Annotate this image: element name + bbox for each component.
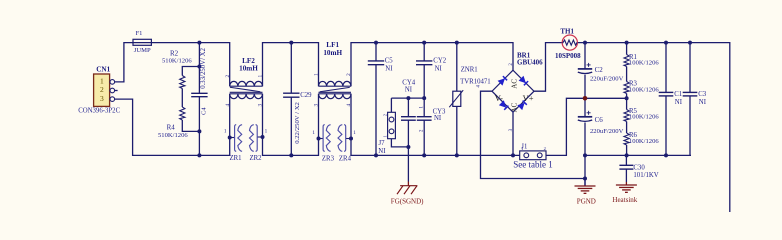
- svg-text:ZR1: ZR1: [230, 155, 242, 162]
- svg-text:JUMP: JUMP: [134, 47, 151, 54]
- svg-text:Heatsink: Heatsink: [612, 196, 637, 204]
- label CY3: [433, 108, 446, 115]
- svg-text:NI: NI: [378, 148, 386, 155]
- capacitor C5: [368, 61, 384, 65]
- capacitor C6: [578, 117, 592, 122]
- label LF1 value: [323, 49, 342, 57]
- label ZNR1 value: [460, 78, 491, 85]
- svg-text:1: 1: [312, 130, 315, 136]
- wire bridge V+ output to TH1: [534, 43, 562, 92]
- pin 3 LF2: [258, 104, 264, 107]
- pin 1 ZR1: [224, 129, 227, 135]
- svg-text:CN1: CN1: [96, 65, 110, 73]
- inductor LF2 common mode choke: [230, 81, 263, 98]
- resistor R6: [624, 133, 629, 145]
- jumper J7: [388, 112, 396, 138]
- pin 4 LF2: [225, 104, 231, 107]
- ground FG(SGND) chassis symbol: [397, 182, 417, 195]
- label CY4: [402, 80, 415, 87]
- label BR1: [517, 51, 531, 59]
- label R4: [167, 124, 176, 132]
- label C6 value: [590, 128, 624, 135]
- wire PGND bottom rail: [585, 154, 691, 156]
- svg-text:101/1KV: 101/1KV: [633, 172, 658, 179]
- label TH1 value: [555, 52, 581, 60]
- pin 2 LF2: [225, 75, 231, 78]
- svg-text:R2: R2: [170, 49, 179, 57]
- svg-text:TVR10471: TVR10471: [460, 78, 491, 85]
- label CY3 NI: [434, 115, 442, 122]
- surge arrester ZR3: [319, 125, 331, 152]
- resistor R2: [180, 76, 185, 89]
- svg-text:2: 2: [383, 114, 388, 116]
- thermistor TH1: [562, 35, 577, 50]
- label C30: [633, 164, 645, 171]
- svg-text:NI: NI: [405, 86, 413, 93]
- svg-text:C1: C1: [674, 91, 682, 98]
- varistor ZNR1: [449, 90, 463, 107]
- label C4 value (rotated): [200, 47, 207, 88]
- wire ZNR1 column: [456, 43, 458, 156]
- label CY4 NI: [405, 86, 413, 93]
- capacitor CY4: [401, 117, 416, 121]
- svg-text:100K/1206: 100K/1206: [629, 60, 659, 67]
- junction dot C2-C6 midpoint (red): [583, 96, 588, 101]
- svg-text:PGND: PGND: [577, 197, 596, 205]
- pin 4 BR1: [477, 85, 482, 88]
- label PGND: [577, 197, 596, 205]
- label CON396-3P2C: [78, 107, 120, 114]
- label C1 NI: [675, 99, 683, 106]
- svg-text:C4: C4: [200, 107, 207, 115]
- svg-text:3: 3: [100, 94, 104, 103]
- wire CN1 pin2 stub: [115, 90, 118, 92]
- pin 1 ZR2: [265, 129, 268, 135]
- wire C30 column: [625, 155, 627, 182]
- label LF2: [242, 57, 255, 65]
- label CN1: [96, 65, 110, 73]
- wire C29 column: [290, 43, 292, 156]
- capacitor C4: [191, 93, 207, 96]
- svg-text:LF1: LF1: [326, 41, 339, 49]
- svg-text:NI: NI: [385, 65, 393, 72]
- label TH1: [560, 27, 574, 35]
- label JUMP: [134, 47, 151, 54]
- wire R1-R3-R5-R6 column: [0, 0, 1, 1]
- label V+: [523, 93, 534, 103]
- label See table 1: [513, 160, 553, 170]
- label C30 value: [633, 172, 658, 179]
- svg-text:See table 1: See table 1: [513, 160, 553, 170]
- label LF1: [326, 41, 339, 49]
- svg-text:C6: C6: [595, 116, 604, 124]
- svg-text:J7: J7: [379, 140, 386, 147]
- label ZNR1: [461, 67, 478, 74]
- wire top rail LF1 to bridge pin 2: [351, 43, 513, 87]
- label C3: [698, 91, 707, 98]
- inductor LF1 common mode choke: [319, 81, 352, 98]
- capacitor C1: [659, 92, 674, 96]
- label R6: [629, 132, 638, 139]
- junction dots top rail: [197, 41, 692, 45]
- capacitor CY3: [417, 117, 432, 121]
- resistor R4: [180, 107, 185, 120]
- wire C5 column: [375, 43, 377, 156]
- label BR1 value: [517, 59, 543, 67]
- junction dots bottom rail: [197, 153, 668, 157]
- svg-text:C30: C30: [633, 164, 645, 171]
- svg-text:NI: NI: [675, 99, 683, 106]
- label J7: [379, 140, 386, 147]
- wire C2 bottom to C6 top: [584, 75, 586, 117]
- svg-text:4: 4: [225, 104, 231, 107]
- surge arrester ZR1: [230, 125, 242, 152]
- label R1: [629, 54, 637, 61]
- svg-text:F1: F1: [136, 30, 143, 37]
- svg-text:C29: C29: [300, 92, 312, 99]
- label R2 value: [162, 58, 192, 65]
- ground PGND symbol: [575, 179, 596, 194]
- label AC bottom (rotated): [511, 102, 519, 112]
- pin 1 J1: [521, 146, 523, 151]
- bridge rectifier BR1: [492, 70, 534, 112]
- wire bottom rail LF1 to J1: [351, 94, 520, 156]
- svg-text:1: 1: [353, 130, 356, 136]
- surge arrester ZR4: [338, 125, 351, 152]
- wire J1 to C2-C6 midpoint node: [546, 98, 585, 155]
- label R5: [629, 108, 638, 115]
- svg-text:2: 2: [544, 146, 546, 151]
- wire bridge pin 3 to neutral rail: [512, 112, 514, 155]
- label R4 value: [158, 132, 188, 139]
- capacitor CY2: [416, 61, 432, 65]
- svg-text:10SP008: 10SP008: [555, 52, 581, 60]
- pin 2 LF1: [346, 73, 352, 76]
- svg-text:1: 1: [521, 146, 523, 151]
- node C2/C6/PGND column: [0, 0, 1, 1]
- label R6 value: [629, 138, 659, 145]
- wire V+ rail from TH1 to right edge: [577, 43, 730, 212]
- capacitor C29: [283, 93, 299, 97]
- wire AC neutral bottom rail from CN1 pin3 to LF2: [115, 94, 230, 156]
- svg-text:100K/1206: 100K/1206: [629, 114, 659, 121]
- resistor R5: [624, 110, 629, 122]
- label CY2: [433, 58, 446, 65]
- wire bridge V- to PGND node: [481, 91, 586, 178]
- surge arrester ZR2: [250, 125, 263, 152]
- label C6: [595, 116, 604, 124]
- fuse F1: [133, 39, 151, 45]
- capacitor C30: [619, 165, 633, 169]
- wire AC line top rail from CN1 pin1 through F1 to LF2: [115, 43, 230, 87]
- svg-text:1: 1: [258, 75, 264, 78]
- junction dots misc: [197, 65, 628, 181]
- svg-text:2: 2: [225, 75, 231, 78]
- label C29 value (rotated): [294, 102, 301, 144]
- svg-text:CY2: CY2: [433, 58, 446, 65]
- wire top rail LF2 to LF1 via C29 node: [263, 43, 319, 87]
- svg-text:0.33/250V/ X2: 0.33/250V/ X2: [200, 47, 207, 88]
- wire bottom rail LF2 to LF1 via C29: [263, 94, 319, 156]
- wire J7 leads: [391, 98, 408, 147]
- label ZR3: [322, 155, 335, 162]
- capacitor C3: [683, 92, 698, 96]
- label C3 NI: [699, 99, 707, 106]
- svg-text:0.22/250V / X2: 0.22/250V / X2: [294, 102, 301, 144]
- pin 2 BR1: [509, 63, 514, 66]
- svg-text:ZNR1: ZNR1: [461, 67, 478, 74]
- svg-text:3: 3: [258, 104, 264, 107]
- svg-text:4: 4: [346, 104, 352, 107]
- label R2: [170, 49, 179, 57]
- wire Y-cap mid node: [391, 97, 424, 99]
- jumper J1: [520, 151, 546, 160]
- label CY2 NI: [435, 65, 443, 72]
- label R1 value: [629, 60, 659, 67]
- label C4 (rotated): [200, 107, 207, 115]
- label AC top (rotated): [511, 79, 519, 89]
- svg-text:1: 1: [224, 129, 227, 135]
- pin 3 LF1: [313, 104, 319, 107]
- label C5 NI: [385, 65, 393, 72]
- svg-text:ZR2: ZR2: [250, 155, 263, 162]
- wire C6 bottom to PGND symbol: [584, 123, 586, 187]
- pin 4 LF1: [346, 104, 352, 107]
- wire C1 column: [665, 43, 667, 156]
- svg-text:TH1: TH1: [560, 27, 574, 35]
- svg-text:100K/1206: 100K/1206: [629, 86, 659, 93]
- resistor R1: [624, 55, 629, 67]
- wire midpoint node to R3-R5 junction: [585, 97, 627, 99]
- svg-text:R4: R4: [167, 124, 176, 132]
- plus sign C2: [587, 63, 591, 67]
- svg-text:AC: AC: [511, 79, 519, 89]
- svg-text:AC: AC: [511, 102, 519, 112]
- label C29: [300, 92, 312, 99]
- label C5: [385, 58, 394, 65]
- pin 1 CY3: [420, 106, 425, 109]
- wire C3 column: [689, 43, 691, 156]
- svg-text:V+: V+: [523, 93, 534, 103]
- svg-text:NI: NI: [434, 115, 442, 122]
- svg-text:GBU406: GBU406: [517, 59, 543, 67]
- resistor R3: [624, 82, 629, 94]
- label LF2 value: [239, 65, 258, 73]
- label J7 NI: [378, 148, 386, 155]
- svg-text:220uF/200V: 220uF/200V: [590, 128, 624, 135]
- svg-text:10mH: 10mH: [323, 49, 342, 57]
- svg-text:CON396-3P2C: CON396-3P2C: [78, 107, 120, 114]
- label ZR2: [250, 155, 263, 162]
- svg-text:ZR3: ZR3: [322, 155, 335, 162]
- svg-text:100K/1206: 100K/1206: [629, 138, 659, 145]
- pin 2 CY3: [420, 129, 425, 132]
- svg-text:510K/1206: 510K/1206: [158, 132, 188, 139]
- label C2: [595, 66, 604, 74]
- label J1: [521, 144, 527, 151]
- svg-text:220uF/200V: 220uF/200V: [590, 76, 624, 83]
- pin 3 BR1: [509, 128, 514, 131]
- svg-text:FG(SGND): FG(SGND): [391, 198, 424, 206]
- svg-text:10mH: 10mH: [239, 65, 258, 73]
- svg-text:V-: V-: [495, 93, 503, 103]
- label C1: [674, 91, 682, 98]
- svg-text:3: 3: [313, 104, 319, 107]
- svg-text:C2: C2: [595, 66, 604, 74]
- label Heatsink: [612, 196, 637, 204]
- wire CY4 column to FG ground: [407, 98, 409, 181]
- svg-text:C5: C5: [385, 58, 394, 65]
- pin 1 LF1: [313, 73, 319, 76]
- wire C4 column: [198, 43, 200, 156]
- svg-text:C3: C3: [698, 91, 707, 98]
- pin 1 ZR4: [353, 130, 356, 136]
- svg-text:1: 1: [265, 129, 268, 135]
- wire CY2-CY3 column: [423, 43, 425, 156]
- capacitor C2: [578, 69, 592, 74]
- label ZR4: [339, 155, 352, 162]
- label ZR1: [230, 155, 242, 162]
- wire R column segments: [626, 43, 628, 156]
- wire C2 column top: [584, 43, 586, 69]
- label FG(SGND): [391, 198, 424, 206]
- pin 2 J7: [383, 114, 388, 116]
- label R5 value: [629, 114, 659, 121]
- pin 1 LF2: [258, 75, 264, 78]
- label R3 value: [629, 86, 659, 93]
- connector CN1: [94, 74, 115, 106]
- label C2 value: [590, 76, 624, 83]
- svg-text:ZR4: ZR4: [339, 155, 352, 162]
- svg-text:1: 1: [313, 73, 319, 76]
- svg-text:510K/1206: 510K/1206: [162, 58, 192, 65]
- svg-text:NI: NI: [435, 65, 443, 72]
- label R3: [629, 80, 638, 87]
- svg-text:1: 1: [383, 135, 388, 137]
- pin 1 J7: [383, 135, 388, 137]
- junction dots ZR pins: [228, 135, 353, 141]
- svg-text:NI: NI: [699, 99, 707, 106]
- ground Heatsink symbol: [616, 182, 637, 192]
- svg-text:2: 2: [346, 73, 352, 76]
- pin 1 ZR3: [312, 130, 315, 136]
- wire R2-R4 branch: [182, 67, 199, 132]
- label F1: [136, 30, 143, 37]
- plus sign C6: [587, 111, 591, 115]
- pin 2 J1: [544, 146, 546, 151]
- label V-: [495, 93, 503, 103]
